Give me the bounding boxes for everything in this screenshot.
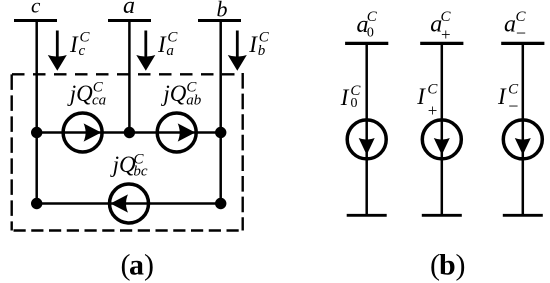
label I_-^C <box>497 82 519 117</box>
svg-text:−: − <box>508 96 518 116</box>
svg-text:): ) <box>456 249 466 282</box>
svg-text:b: b <box>258 43 266 59</box>
svg-text:bc: bc <box>133 164 148 180</box>
svg-text:+: + <box>441 25 451 44</box>
label I_a^C <box>157 30 178 60</box>
wire b vertical <box>219 21 222 204</box>
label jQ_bc^C <box>110 152 148 180</box>
svg-text:jQ: jQ <box>67 81 93 106</box>
wire branch 0 <box>365 43 368 215</box>
svg-text:b: b <box>439 249 456 282</box>
node c-upper <box>31 127 42 138</box>
svg-text:C: C <box>427 82 438 98</box>
current arrow Ic <box>48 31 67 71</box>
terminal bar b <box>198 19 241 22</box>
svg-text:C: C <box>367 9 378 25</box>
current source I0 <box>347 120 386 159</box>
svg-text:0: 0 <box>367 25 374 40</box>
wire c vertical <box>35 21 38 204</box>
wire branch + <box>441 43 444 215</box>
svg-text:a: a <box>166 43 174 59</box>
label I_+^C <box>416 82 438 121</box>
svg-text:I: I <box>497 84 507 109</box>
bottom bar branch 0 <box>347 214 387 217</box>
svg-text:b: b <box>217 0 228 22</box>
current source I+ <box>422 120 461 159</box>
svg-text:ca: ca <box>92 93 106 109</box>
svg-text:+: + <box>428 101 438 120</box>
wire a vertical <box>128 21 131 133</box>
svg-text:−: − <box>516 23 526 43</box>
svg-text:a: a <box>123 0 135 19</box>
current source jQbc <box>110 184 149 223</box>
svg-text:a: a <box>504 12 516 38</box>
dashed box top edge <box>12 73 243 75</box>
current source jQab <box>157 113 196 152</box>
svg-text:): ) <box>144 249 154 282</box>
caption (a) <box>121 249 155 282</box>
svg-text:I: I <box>69 32 79 57</box>
node a-upper <box>124 127 135 138</box>
svg-text:jQ: jQ <box>110 152 136 177</box>
wire branch - <box>522 43 525 215</box>
svg-text:a: a <box>129 249 144 282</box>
label I_b^C <box>248 30 269 60</box>
node c-lower <box>31 198 42 209</box>
svg-text:I: I <box>416 84 426 109</box>
label a_0^C <box>357 9 378 40</box>
label I_c^C <box>69 30 91 60</box>
terminal bar a0 <box>345 42 388 45</box>
caption (b) <box>430 249 466 282</box>
node b-upper <box>215 127 226 138</box>
svg-text:C: C <box>441 9 452 25</box>
terminal bar a <box>108 19 151 22</box>
svg-text:I: I <box>340 85 350 110</box>
current source I- <box>503 120 542 159</box>
svg-text:ab: ab <box>186 93 202 109</box>
bottom bar branch + <box>422 214 462 217</box>
label I_0^C <box>340 83 362 111</box>
terminal bar a+ <box>420 42 463 45</box>
wire lower horizontal <box>37 202 221 205</box>
node b-lower <box>215 198 226 209</box>
wire upper horizontal <box>37 131 221 134</box>
dashed box left edge <box>10 74 12 230</box>
bottom bar branch - <box>503 214 543 217</box>
svg-text:jQ: jQ <box>160 81 186 106</box>
current arrow Ia <box>136 31 155 71</box>
dashed box bottom edge <box>14 229 243 232</box>
label jQ_ab^C <box>160 80 201 109</box>
current arrow Ib <box>228 31 247 71</box>
label a_-^C <box>504 9 527 43</box>
svg-text:0: 0 <box>351 96 358 111</box>
label jQ_ca^C <box>67 80 106 109</box>
terminal bar a- <box>501 42 544 45</box>
label a_+^C <box>430 9 451 44</box>
current source jQca <box>63 113 102 152</box>
svg-text:c: c <box>31 0 41 18</box>
terminal bar c <box>14 19 57 22</box>
dashed box right edge <box>241 73 243 231</box>
svg-text:c: c <box>79 43 86 59</box>
